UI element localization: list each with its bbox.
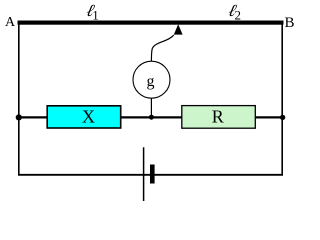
junction galvanometer-middle wire	[149, 115, 154, 120]
resistor X (unknown resistance box)	[47, 106, 121, 128]
svg-text:R: R	[212, 106, 224, 126]
svg-text:B: B	[284, 15, 294, 31]
battery short thick plate	[150, 165, 155, 184]
junction left	[16, 114, 22, 120]
wire jockey to galvanometer	[151, 35, 173, 62]
resistor R (known resistance box)	[182, 106, 256, 129]
wire left vertical (A to battery)	[18, 22, 20, 176]
wire galvanometer bottom lead	[150, 98, 152, 117]
junction right	[280, 115, 285, 120]
wire middle (junction left to junction right)	[18, 116, 284, 118]
svg-text:g: g	[147, 73, 155, 90]
battery long thin plate	[143, 147, 145, 201]
galvanometer G body	[133, 61, 170, 98]
battery cell E	[144, 147, 155, 201]
wire right vertical (B to battery)	[281, 22, 283, 176]
jockey arrow (sliding contact)	[174, 24, 183, 34]
wire bottom (battery circuit)	[18, 174, 283, 176]
svg-text:A: A	[5, 15, 16, 30]
wire AB (uniform slide wire, thick bar)	[18, 21, 284, 25]
svg-text:2: 2	[235, 7, 242, 22]
svg-text:X: X	[82, 106, 95, 126]
svg-text:1: 1	[92, 7, 99, 22]
